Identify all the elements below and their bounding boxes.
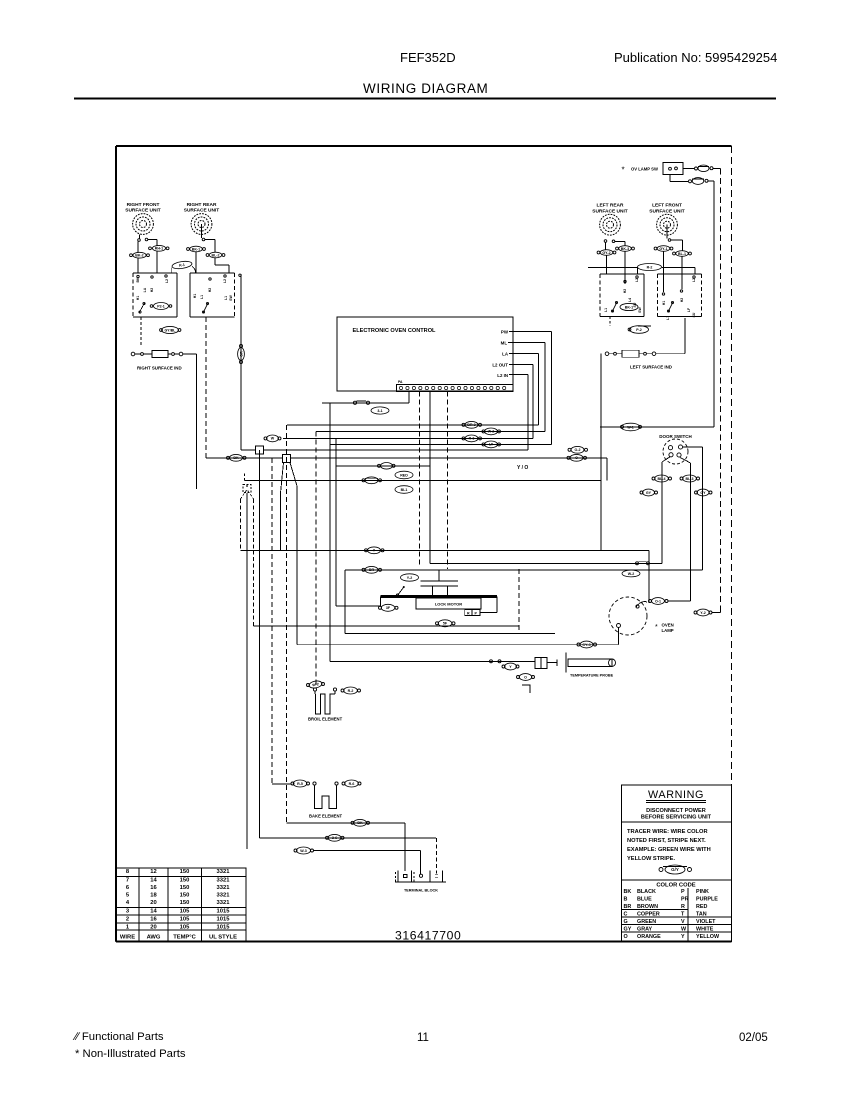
floating label W near lamp (622, 570, 640, 577)
bracket mark (522, 685, 530, 693)
svg-text:SURFACE UNIT: SURFACE UNIT (649, 208, 685, 214)
door sw right lead (680, 457, 691, 463)
svg-text:1015: 1015 (217, 909, 231, 915)
wire y563 (430, 563, 662, 565)
svg-text:∕∕ Functional Parts: ∕∕ Functional Parts (72, 1031, 164, 1043)
svg-text:R-1: R-1 (179, 263, 185, 268)
connector on H7 right (567, 456, 570, 459)
svg-text:LA: LA (502, 352, 509, 357)
lock motor dashed enclosure right edge (518, 569, 520, 634)
svg-text:LEFT SURFACE IND: LEFT SURFACE IND (630, 365, 672, 370)
svg-text:3-6: 3-6 (332, 836, 337, 840)
bus wire H3 y431.5 (316, 431, 545, 433)
floating label REL (395, 471, 413, 479)
svg-text:*: * (622, 166, 625, 175)
svg-text:12: 12 (150, 869, 156, 875)
connector BR on y570 (362, 568, 365, 571)
svg-text:RIGHT REAR: RIGHT REAR (187, 202, 217, 208)
wire lamp sw to connector (683, 168, 694, 170)
oven lamp switch box (663, 163, 683, 175)
svg-text:ML: ML (501, 341, 508, 346)
svg-text:L2: L2 (223, 279, 227, 283)
svg-text:16: 16 (150, 917, 157, 923)
svg-text:UL STYLE: UL STYLE (209, 934, 237, 940)
wire hairpin bottom / y550 to lamp (241, 550, 650, 552)
floating label W-D (621, 423, 640, 431)
svg-text:2: 2 (126, 917, 129, 923)
svg-text:O-1: O-1 (655, 599, 661, 603)
wire x272 dashed (271, 458, 273, 784)
svg-text:GY: GY (700, 491, 706, 495)
diagram frame right (dashed) (731, 146, 733, 942)
svg-text:O-2: O-2 (575, 448, 581, 452)
wire PW wrap (513, 331, 552, 333)
wire drop x196 (196, 354, 198, 489)
warning box (622, 785, 732, 942)
svg-text:GY: GY (646, 491, 652, 495)
door sw top right lead (683, 446, 703, 448)
svg-text:OR: OR (239, 351, 243, 357)
connector on y466 (378, 464, 381, 467)
svg-text:Publication No: 5995429254: Publication No: 5995429254 (614, 50, 777, 65)
LR connector BK (616, 247, 619, 250)
connector on H2 (462, 423, 465, 426)
oven lamp L1 (609, 597, 647, 635)
RR-RF jumper connector (172, 260, 193, 270)
RF connector BK (137, 241, 139, 252)
svg-text:SURFACE UNIT: SURFACE UNIT (592, 208, 628, 214)
capacitor C1 (421, 580, 459, 582)
svg-text:PINK: PINK (696, 889, 709, 895)
bus wire y480 (245, 480, 602, 482)
wire W-3 to block (314, 850, 421, 852)
svg-text:BL-2: BL-2 (212, 253, 220, 257)
svg-text:Y-2: Y-2 (700, 611, 705, 615)
bus wire H5 y444.5 (330, 444, 552, 446)
connector 3F (379, 606, 382, 609)
svg-text:*: * (655, 624, 658, 631)
svg-text:O: O (524, 675, 527, 679)
GY-BL connector under RF box (160, 329, 163, 332)
connector on H5 (482, 443, 485, 446)
svg-text:RIGHT FRONT: RIGHT FRONT (127, 202, 160, 208)
wire LF ovals to box (663, 251, 665, 292)
svg-text:BK-2: BK-2 (135, 254, 143, 258)
svg-text:150: 150 (180, 869, 190, 875)
svg-text:R-6: R-6 (349, 782, 355, 786)
connector GY on y644 (577, 643, 580, 646)
svg-text:O: O (624, 934, 628, 940)
connector R broil right (341, 689, 344, 692)
svg-text:105: 105 (180, 909, 190, 915)
broil element E1 (314, 691, 316, 694)
connector on y563 (636, 562, 639, 565)
RF box bottom pin wire (140, 317, 142, 345)
LF box contact (668, 302, 673, 312)
bus wire H6 y450 (241, 449, 528, 451)
svg-text:TEMP°C: TEMP°C (173, 934, 196, 940)
connector on H3 (482, 430, 485, 433)
RF box contact (139, 303, 145, 313)
wire x330 (329, 403, 331, 662)
svg-text:L1: L1 (666, 316, 670, 320)
svg-text:BROIL ELEMENT: BROIL ELEMENT (308, 717, 343, 722)
sensor right dashed drop (253, 551, 255, 627)
LF connector GY (654, 247, 657, 250)
svg-text:BR-2: BR-2 (467, 423, 475, 427)
RR box bottom dashed wire x206 (205, 317, 207, 456)
svg-text:3321: 3321 (217, 893, 231, 899)
sensor body (dashed capsule) (243, 485, 251, 493)
svg-text:ELECTRONIC OVEN CONTROL: ELECTRONIC OVEN CONTROL (353, 328, 437, 334)
wire y550 corner down to lamp (648, 551, 650, 604)
svg-text:BEFORE SERVICING UNIT: BEFORE SERVICING UNIT (641, 815, 712, 821)
floating label BL1 (395, 486, 413, 494)
svg-text:YELLOW: YELLOW (696, 934, 720, 940)
connector W on H4 left (264, 437, 267, 440)
RF unit leads (138, 235, 140, 239)
svg-text:BK-1: BK-1 (192, 247, 200, 251)
wire y633.5 (345, 633, 555, 635)
connector O-D (517, 676, 520, 679)
wire LA wrap (513, 353, 539, 355)
svg-text:H2: H2 (208, 288, 212, 293)
wire lamp bottom lead (618, 628, 620, 645)
bus wire H2 y425 (287, 424, 539, 426)
RF box internal label P1 (150, 305, 153, 308)
lock motor contact (397, 588, 404, 597)
wire bake left (272, 783, 291, 785)
svg-text:PW: PW (501, 330, 509, 335)
sensor inner wire (246, 493, 248, 849)
wire L2 IN wrap (513, 374, 528, 376)
svg-text:RIGHT SURFACE IND: RIGHT SURFACE IND (137, 366, 182, 371)
OR connector on x241 (238, 345, 245, 364)
wire y466 (336, 465, 430, 467)
wire RF ovals to box (137, 258, 139, 273)
connector on H7 left (227, 456, 230, 459)
svg-text:3321: 3321 (217, 885, 231, 891)
bake element E2 (315, 785, 337, 808)
wire ML wrap (513, 342, 545, 344)
svg-text:LF: LF (687, 307, 691, 312)
connector W on y662 (490, 660, 493, 663)
svg-text:BLACK: BLACK (637, 889, 656, 895)
diagram frame bottom (116, 941, 732, 943)
svg-text:TERMINAL BLOCK: TERMINAL BLOCK (404, 889, 438, 893)
connector L on lamp lead (649, 600, 652, 603)
wire to right then down (dashed) (713, 167, 721, 169)
svg-text:NOTED FIRST, STRIPE NEXT.: NOTED FIRST, STRIPE NEXT. (627, 838, 706, 844)
EOC terminal pins (399, 386, 402, 389)
connector R bake left (291, 782, 294, 785)
EOC pin wire x430 (429, 392, 431, 564)
svg-text:P2-1: P2-1 (157, 304, 165, 308)
svg-text:WIRING DIAGRAM: WIRING DIAGRAM (363, 81, 488, 96)
svg-text:R-5: R-5 (297, 782, 303, 786)
svg-text:L2: L2 (165, 279, 169, 283)
right surface indicator lamp (131, 352, 135, 356)
svg-text:11: 11 (417, 1032, 429, 1044)
svg-text:GY-2: GY-2 (602, 251, 610, 255)
svg-text:1015: 1015 (217, 924, 231, 930)
svg-text:BK: BK (624, 889, 632, 895)
svg-text:WIRE: WIRE (120, 934, 135, 940)
svg-text:PA: PA (398, 380, 403, 384)
door sw left lead (662, 457, 670, 462)
svg-text:3F: 3F (386, 606, 391, 610)
svg-text:BLUE: BLUE (637, 897, 652, 903)
connector on y480 (362, 479, 365, 482)
svg-text:5: 5 (126, 893, 130, 899)
EOC pin wire dashed x419 (419, 392, 421, 566)
connector lamp branch (621, 425, 624, 428)
diagram frame top (116, 145, 732, 147)
junction block J1 (256, 446, 264, 454)
svg-text:3: 3 (126, 909, 130, 915)
EOC terminal strip (397, 385, 514, 392)
junction diagonal J2 right (290, 463, 297, 487)
connector W-2 broil (307, 684, 310, 687)
wire connector to dashed border wire (712, 612, 721, 614)
svg-text:16: 16 (150, 885, 157, 891)
EOC pin wire dashed x447 (447, 392, 449, 570)
svg-text:105: 105 (180, 924, 190, 930)
svg-text:FEF352D: FEF352D (400, 50, 456, 65)
connector 3-6 y836 (326, 836, 329, 839)
wire y836.5 (260, 837, 437, 839)
connector 2-5 near right border (694, 611, 697, 614)
svg-text:SU: SU (692, 312, 696, 317)
svg-text:Y / O: Y / O (517, 465, 528, 471)
svg-text:H1: H1 (136, 296, 140, 301)
wire x345 (344, 570, 346, 634)
svg-text:TEMPERATURE PROBE: TEMPERATURE PROBE (570, 674, 614, 678)
label under H1 (371, 407, 389, 414)
svg-text:20: 20 (150, 924, 156, 930)
svg-text:L2 IN: L2 IN (497, 373, 508, 378)
svg-text:L2 OUT: L2 OUT (492, 363, 508, 368)
LR surface switch box (599, 274, 601, 317)
header rule (74, 98, 776, 100)
svg-text:20: 20 (150, 900, 156, 906)
svg-text:SURFACE UNIT: SURFACE UNIT (184, 208, 220, 214)
svg-text:H2: H2 (680, 298, 684, 303)
connector BK y825 (351, 821, 354, 824)
svg-text:L1: L1 (200, 295, 204, 299)
lamp sw connector pair (695, 167, 698, 170)
LR-LF jumper connector (638, 264, 662, 271)
svg-text:3321: 3321 (217, 900, 231, 906)
svg-text:DISCONNECT POWER: DISCONNECT POWER (646, 808, 706, 814)
svg-text:YELLOW STRIPE.: YELLOW STRIPE. (627, 856, 675, 862)
dashed wire x436 to block (436, 838, 438, 874)
LR box oval label (620, 303, 638, 310)
wire x286 dashed (286, 425, 288, 823)
svg-text:18: 18 (150, 893, 157, 899)
svg-text:R-2: R-2 (348, 689, 354, 693)
wire gauge table (116, 868, 246, 942)
RR surface switch box (189, 273, 191, 317)
svg-text:BK: BK (357, 821, 363, 825)
connector W-3 (294, 849, 297, 852)
svg-text:GY/BL: GY/BL (165, 328, 177, 332)
wire motor right leg (496, 597, 498, 613)
svg-text:R-3: R-3 (469, 437, 475, 441)
svg-text:DOOR SWITCH: DOOR SWITCH (659, 434, 692, 439)
wire drop x601 (600, 354, 602, 550)
left surface indicator lamp (684, 318, 686, 354)
connector on y550 (365, 549, 368, 552)
connector 5F (436, 622, 439, 625)
svg-text:ORANGE: ORANGE (637, 934, 661, 940)
wire y626 (254, 625, 519, 627)
lock motor bar M1 (381, 595, 498, 598)
svg-text:BK-3: BK-3 (621, 247, 629, 251)
connector GY right (695, 491, 698, 494)
svg-text:8: 8 (126, 869, 130, 875)
svg-text:WARNING: WARNING (648, 789, 704, 801)
svg-text:LA: LA (143, 287, 147, 292)
svg-text:5F: 5F (443, 622, 448, 626)
LR connector GY (605, 242, 607, 249)
svg-text:G/Y: G/Y (671, 867, 679, 872)
lamp sw lower connector (689, 180, 692, 183)
svg-text:* Non-Illustrated Parts: * Non-Illustrated Parts (75, 1048, 186, 1060)
connector on right lead (680, 477, 683, 480)
probe connector block (535, 658, 547, 669)
relay contact box (465, 610, 480, 616)
svg-text:150: 150 (180, 878, 190, 884)
svg-text:LEFT REAR: LEFT REAR (597, 203, 624, 209)
electronic oven control box U1 (337, 317, 513, 391)
svg-text:LAMP: LAMP (662, 628, 674, 633)
RF surface switch box (132, 273, 134, 317)
svg-text:150: 150 (180, 900, 190, 906)
wire motor left (336, 605, 381, 607)
svg-text:W-2: W-2 (628, 572, 635, 576)
sensor stub from bus (244, 474, 246, 481)
svg-text:150: 150 (180, 893, 190, 899)
bake element terminals (313, 782, 316, 785)
connector on H4 (462, 437, 465, 440)
svg-text:H1: H1 (193, 294, 197, 299)
connector GY left (640, 491, 643, 494)
wire H7 corner down (606, 458, 608, 481)
svg-text:RED: RED (400, 473, 408, 477)
svg-text:14: 14 (150, 909, 157, 915)
junction block J2 (283, 455, 291, 463)
svg-text:GY-3: GY-3 (582, 643, 590, 647)
wire L2 OUT wrap (513, 364, 533, 366)
svg-text:Y: Y (681, 934, 685, 940)
svg-text:SW: SW (229, 294, 233, 300)
wire RR oval to box (195, 252, 197, 273)
LR unit leads (604, 240, 607, 243)
RR box right wire x241 with OR connector (239, 274, 241, 276)
wire x297 (296, 486, 298, 645)
RR box contact (203, 303, 208, 313)
svg-text:316417700: 316417700 (395, 929, 461, 943)
svg-text:RED: RED (696, 904, 707, 910)
svg-text:RH-1: RH-1 (155, 247, 163, 251)
capacitor leads (432, 586, 434, 597)
wire H1 y403 (322, 402, 409, 404)
wire y662 (330, 661, 535, 663)
wire at y267 linking L2 pins (588, 266, 637, 268)
svg-text:R: R (467, 611, 470, 615)
svg-text:BK-1: BK-1 (625, 305, 633, 309)
LF unit leads (668, 239, 671, 242)
svg-text:L1: L1 (224, 296, 228, 300)
svg-text:3321: 3321 (217, 869, 231, 875)
svg-text:PURPLE: PURPLE (696, 897, 718, 903)
connector on H1 (353, 401, 356, 404)
svg-text:EXAMPLE: GREEN WIRE WITH: EXAMPLE: GREEN WIRE WITH (627, 847, 711, 853)
svg-text:TRACER WIRE: WIRE COLOR: TRACER WIRE: WIRE COLOR (627, 829, 708, 835)
svg-text:W: W (271, 437, 275, 441)
wire x405 to block (404, 823, 406, 871)
wire y427 lamp branch (600, 426, 714, 428)
svg-text:W-3: W-3 (300, 849, 307, 853)
wire lamp to door sw right lead (668, 600, 691, 602)
jumper stubs into boxes (171, 268, 173, 274)
LF surface switch box (657, 274, 659, 317)
svg-text:PR: PR (681, 897, 689, 903)
lock motor body (416, 598, 481, 609)
svg-text:3321: 3321 (217, 878, 231, 884)
LR box contact (612, 302, 617, 312)
connector Y-D (502, 665, 505, 668)
svg-text:3-1: 3-1 (377, 409, 382, 413)
svg-text:P: P (681, 889, 685, 895)
svg-text:OVEN: OVEN (662, 623, 674, 628)
connector on H6 right (568, 448, 571, 451)
svg-text:SURFACE UNIT: SURFACE UNIT (125, 208, 161, 214)
svg-text:BL-4: BL-4 (658, 477, 666, 481)
lamp filament hook (636, 602, 647, 607)
svg-text:P-2: P-2 (636, 328, 642, 332)
wire y825 (287, 822, 406, 824)
diagram frame left (115, 146, 117, 942)
wire LR ovals to box (606, 255, 608, 274)
svg-text:150: 150 (180, 885, 190, 891)
wire x336 dashed (335, 439, 337, 607)
svg-text:1: 1 (126, 924, 130, 930)
wire y644 (297, 644, 617, 646)
junction diagonal J2 left (281, 463, 284, 494)
svg-text:AWG: AWG (147, 934, 161, 940)
LF connector BL (673, 252, 676, 255)
svg-text:LOCK MOTOR: LOCK MOTOR (435, 602, 462, 607)
RR unit leads (202, 238, 205, 241)
tracer example connector (659, 868, 663, 872)
svg-text:6: 6 (126, 885, 130, 891)
svg-text:W-2: W-2 (312, 682, 319, 687)
probe body (556, 660, 558, 667)
svg-text:COLOR CODE: COLOR CODE (656, 883, 695, 889)
svg-text:4: 4 (126, 900, 130, 906)
svg-text:H1: H1 (662, 301, 666, 306)
svg-text:W-2: W-2 (488, 430, 495, 434)
bus wire H7 y458 (206, 457, 607, 459)
svg-text:1015: 1015 (217, 917, 231, 923)
RF connector RH (149, 247, 152, 250)
svg-text:02/05: 02/05 (739, 1032, 768, 1044)
connector EL on left lead (652, 477, 655, 480)
dashed drop wire right side (720, 168, 722, 606)
RR connector BL (206, 254, 209, 257)
